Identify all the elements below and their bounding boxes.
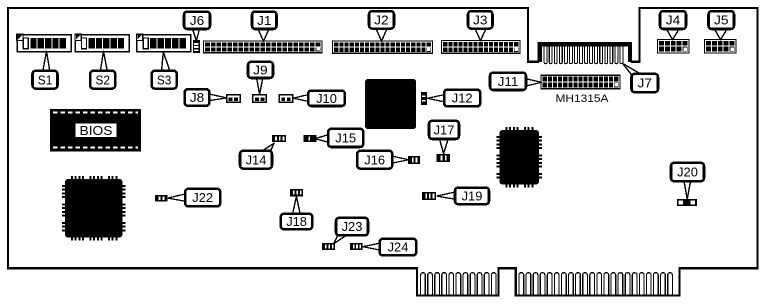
DIP switch S3 <box>137 34 191 51</box>
leader line to J1 <box>258 29 269 42</box>
leader line to J11 <box>526 79 542 87</box>
svg-text:J11: J11 <box>498 74 519 89</box>
jumper J8 <box>227 95 241 102</box>
svg-text:J20: J20 <box>677 165 698 180</box>
leader line to J18 <box>293 196 301 214</box>
leader line to J15 <box>315 135 329 143</box>
jumper J24 <box>350 243 363 250</box>
connector J3 <box>442 41 521 54</box>
leader line to J4 <box>666 29 679 40</box>
leader line to S1 <box>43 51 50 71</box>
callout label J6 <box>184 12 210 29</box>
connector J5 <box>705 40 737 54</box>
leader line to J12 <box>427 95 444 102</box>
leader line to J24 <box>363 243 380 250</box>
IC chip U1 (large solid square) <box>365 79 416 129</box>
callout label J14 <box>240 151 272 169</box>
leader line to J5 <box>714 29 727 40</box>
svg-text:J16: J16 <box>364 152 385 167</box>
jumper J17 <box>437 154 451 162</box>
svg-text:J24: J24 <box>388 240 409 255</box>
jumper J19 <box>422 192 436 200</box>
callout label S3 <box>152 71 177 89</box>
callout label J5 <box>709 11 735 29</box>
leader line to J9 <box>257 78 263 95</box>
DIP switch S2 <box>75 34 129 51</box>
svg-text:J2: J2 <box>374 13 389 28</box>
leader line to J19 <box>437 192 455 199</box>
svg-text:J5: J5 <box>714 13 729 28</box>
callout label S1 <box>33 71 58 89</box>
callout label J8 <box>185 89 210 106</box>
callout label J12 <box>444 90 480 107</box>
svg-text:BIOS: BIOS <box>80 124 113 138</box>
svg-text:J1: J1 <box>257 13 272 28</box>
connector J1 <box>204 41 323 53</box>
jumper J23 <box>322 243 335 250</box>
jumper J22 <box>155 195 167 202</box>
IC chip U2 (QFP, pins all sides) <box>62 176 126 241</box>
svg-text:J8: J8 <box>190 90 205 105</box>
jumper J6 (vertical) <box>193 40 200 53</box>
svg-text:MH1315A: MH1315A <box>556 93 610 105</box>
callout label J11 <box>490 73 526 90</box>
connector J4 <box>658 40 690 54</box>
jumper J18 <box>290 189 303 196</box>
callout label J19 <box>455 188 489 205</box>
leader line to J7 <box>623 64 641 76</box>
BIOS ROM chip <box>50 109 141 152</box>
leader line to J23 <box>334 235 347 244</box>
svg-text:J6: J6 <box>190 13 205 28</box>
card edge connector fingers (left section) <box>421 273 497 295</box>
callout label J23 <box>336 218 368 236</box>
jumper J9 <box>253 95 267 102</box>
leader line to J8 <box>209 94 227 101</box>
callout label J9 <box>248 62 273 78</box>
leader line to J17 <box>439 139 448 154</box>
svg-text:J7: J7 <box>638 76 653 91</box>
svg-text:S3: S3 <box>157 72 172 87</box>
connector J2 <box>333 41 433 53</box>
jumper J10 <box>279 95 293 102</box>
callout label J16 <box>357 151 392 169</box>
svg-text:J22: J22 <box>192 190 213 205</box>
callout label J1 <box>252 12 277 29</box>
callout label J17 <box>429 121 459 139</box>
svg-text:J19: J19 <box>462 189 483 204</box>
svg-text:S2: S2 <box>96 72 111 87</box>
jumper J12 (vertical) <box>421 92 427 105</box>
svg-text:J14: J14 <box>246 152 267 167</box>
jumper J15 <box>303 135 316 142</box>
leader line to S2 <box>100 51 107 71</box>
jumper J20 <box>677 199 697 206</box>
jumper J16 <box>408 156 420 164</box>
card edge connector fingers (right section) <box>519 273 672 295</box>
leader line to S3 <box>162 52 171 71</box>
IC chip U3 (QFP, pins all sides) <box>497 127 543 188</box>
leader line to J16 <box>392 156 409 163</box>
svg-text:J3: J3 <box>473 13 488 28</box>
connector J11 <box>541 75 620 88</box>
callout label S2 <box>90 71 115 89</box>
DIP switch S1 <box>17 34 71 51</box>
svg-text:S1: S1 <box>38 72 53 87</box>
callout label J15 <box>328 129 363 147</box>
svg-text:J23: J23 <box>342 219 363 234</box>
callout label J4 <box>660 11 686 29</box>
svg-text:J9: J9 <box>253 63 267 78</box>
svg-text:J12: J12 <box>452 91 473 106</box>
callout label J3 <box>468 11 493 28</box>
svg-text:J17: J17 <box>434 123 455 138</box>
svg-text:J10: J10 <box>316 91 337 106</box>
connector J7 (ruffled header at board top notch) <box>538 42 633 64</box>
leader line to J22 <box>168 194 186 201</box>
leader line to J14 <box>262 143 274 151</box>
svg-text:J18: J18 <box>286 214 307 229</box>
callout label J24 <box>380 239 417 256</box>
callout label J18 <box>281 214 313 229</box>
svg-text:J15: J15 <box>335 131 356 146</box>
callout label J10 <box>308 91 345 106</box>
leader line to J2 <box>376 28 387 41</box>
svg-text:J4: J4 <box>666 13 681 28</box>
leader line to J20 <box>684 181 691 199</box>
jumper J14 <box>272 135 286 142</box>
callout label J2 <box>369 11 394 28</box>
callout label J22 <box>185 189 220 207</box>
callout label J7 <box>632 74 659 92</box>
leader line to J3 <box>475 28 486 41</box>
leader line to J6 <box>192 29 199 41</box>
leader line to J10 <box>293 95 308 102</box>
callout label J20 <box>671 163 704 181</box>
